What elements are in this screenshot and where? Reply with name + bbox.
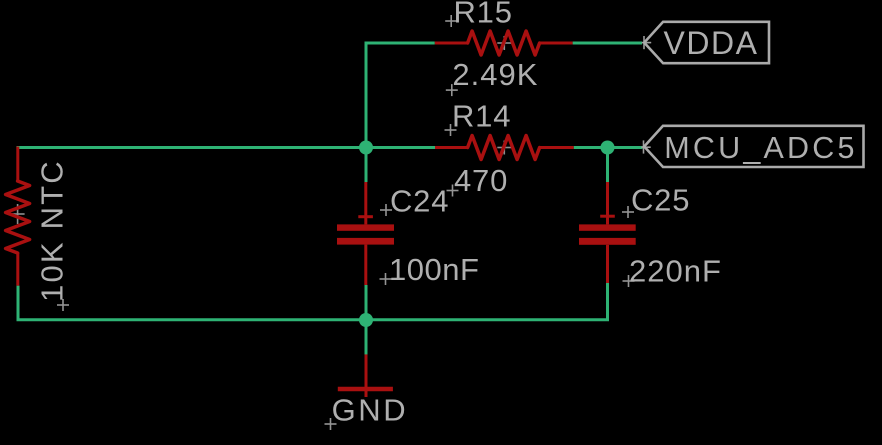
svg-text:C25: C25: [631, 183, 690, 218]
origin cross of thermistor R?: [11, 204, 25, 224]
svg-text:VDDA: VDDA: [664, 25, 759, 61]
origin cross of R14: [497, 141, 511, 155]
label 220nF with origin cross: [623, 254, 722, 289]
wire GND stub: [365, 319, 368, 355]
resistor R14: [435, 136, 574, 160]
pin-end cross at MCU_ADC5: [641, 140, 650, 153]
origin cross of R15: [497, 36, 511, 50]
label 10K NTC (rotated) with origin cross: [35, 159, 70, 311]
label 2.49K with origin cross: [446, 57, 539, 96]
label 470 with origin cross: [447, 163, 509, 198]
label R15 with origin cross: [445, 0, 513, 30]
capacitor C25: [579, 182, 636, 283]
svg-text:R14: R14: [452, 98, 511, 133]
wire R14 to MCU_ADC5 flag: [574, 146, 643, 149]
wire R15 to VDDA flag: [573, 42, 642, 45]
junction node C: [359, 313, 373, 327]
wire thermistor top to R14: [17, 146, 436, 149]
label 100nF with origin cross: [380, 252, 480, 287]
label C24 with origin cross: [380, 184, 449, 219]
svg-text:C24: C24: [390, 184, 449, 219]
label C25 with origin cross: [622, 183, 690, 219]
net flag MCU_ADC5: [644, 126, 863, 167]
ground symbol: [338, 354, 393, 397]
junction node A: [359, 141, 373, 155]
label R14 with origin cross: [445, 98, 512, 136]
wire junction B to C25: [606, 148, 609, 183]
wire C24 to bottom junction: [365, 285, 368, 321]
svg-text:GND: GND: [332, 393, 409, 428]
svg-text:10K NTC: 10K NTC: [35, 159, 70, 302]
wire junction A to C24: [365, 148, 368, 183]
label GND with origin cross: [325, 393, 409, 430]
capacitor C24: [337, 182, 394, 285]
net flag VDDA: [644, 22, 769, 63]
wire bottom rail (thermistor to C25): [18, 283, 608, 320]
junction node B: [601, 141, 615, 155]
svg-text:220nF: 220nF: [629, 254, 722, 289]
thermistor 10K NTC: [6, 147, 30, 286]
svg-text:470: 470: [454, 163, 508, 198]
wire trunk top L (top rail to R15 row): [366, 43, 435, 148]
svg-text:2.49K: 2.49K: [452, 57, 538, 92]
svg-text:MCU_ADC5: MCU_ADC5: [664, 131, 857, 165]
svg-text:100nF: 100nF: [389, 252, 479, 287]
resistor R15: [435, 31, 573, 55]
svg-text:R15: R15: [454, 0, 513, 30]
pin-end cross at VDDA: [642, 36, 651, 49]
